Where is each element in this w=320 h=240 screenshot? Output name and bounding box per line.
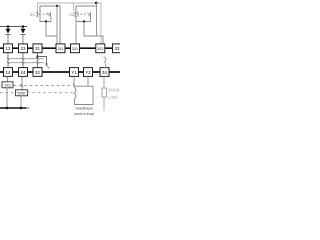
sensor box 1X1 bbox=[2, 82, 13, 88]
box 14 bbox=[4, 68, 13, 77]
svg-text:24Vdc: 24Vdc bbox=[108, 88, 120, 93]
wire row1-row2 connector x8 bbox=[7, 53, 9, 68]
box 321 bbox=[71, 44, 80, 53]
sensor box 1X2 bbox=[16, 90, 28, 96]
node S1 rail bbox=[56, 5, 58, 7]
wire S2 drain drop bbox=[96, 3, 98, 36]
node on gate line bbox=[95, 2, 97, 4]
wire row1-row2 connector x23 bbox=[22, 53, 24, 68]
load resistor bbox=[102, 88, 106, 97]
svg-text:Y2: Y2 bbox=[85, 70, 91, 75]
bus row 2 bbox=[0, 71, 120, 73]
box 33 edge bbox=[113, 44, 122, 53]
svg-text:14: 14 bbox=[6, 70, 11, 75]
node S2 emitter bbox=[83, 20, 85, 22]
svg-text:control loop: control loop bbox=[74, 111, 94, 116]
box 322 bbox=[96, 44, 105, 53]
svg-text:24: 24 bbox=[21, 70, 26, 75]
svg-text:32: 32 bbox=[35, 70, 40, 75]
tick diagonal bbox=[47, 65, 50, 69]
transistor S1 bbox=[36, 12, 51, 18]
wire S2 left drop to box E bbox=[75, 22, 77, 45]
box 23 bbox=[19, 44, 28, 53]
transistor S2 bbox=[74, 12, 91, 18]
wire S2 emitter bottom bbox=[76, 16, 91, 22]
wire S1 rail drop bbox=[56, 6, 58, 44]
node input 2 bbox=[22, 25, 25, 28]
svg-text:322: 322 bbox=[97, 47, 103, 51]
diode D1 bbox=[6, 27, 11, 45]
hop ticks bbox=[7, 58, 39, 65]
svg-text:S2: S2 bbox=[69, 12, 75, 17]
wire load down bbox=[103, 97, 105, 111]
node input 1 bbox=[7, 25, 10, 28]
wire box34 down to load bbox=[103, 76, 105, 88]
box 34 bbox=[100, 68, 109, 77]
wire Y2 down bbox=[87, 76, 89, 86]
wire box14 down bbox=[7, 76, 9, 82]
wire sensor1 down bbox=[6, 88, 8, 108]
node tap below box 31 bbox=[36, 55, 38, 57]
dashed line 1 bbox=[14, 85, 74, 87]
box 24 bbox=[19, 68, 28, 77]
box 311 bbox=[56, 44, 65, 53]
gate drive line (light) top bbox=[38, 3, 102, 44]
signal line B bbox=[8, 62, 44, 64]
wire row1-row2 connector x37.5 bbox=[37, 53, 39, 68]
bottom bus bbox=[0, 107, 26, 109]
svg-text:Y1: Y1 bbox=[71, 70, 77, 75]
box 31 bbox=[33, 44, 42, 53]
wire S2 collector rail bbox=[76, 6, 97, 13]
signal line A bbox=[8, 58, 44, 60]
hop tick bbox=[21, 84, 23, 87]
svg-text:S1: S1 bbox=[30, 12, 36, 17]
wire sensor2 down bbox=[20, 96, 22, 108]
svg-text:33: 33 bbox=[115, 46, 120, 51]
svg-text:23: 23 bbox=[21, 46, 26, 51]
svg-text:Load :: Load : bbox=[108, 95, 120, 100]
node bottom 1 bbox=[6, 107, 9, 110]
node bottom 2 bbox=[20, 107, 23, 110]
box 32 bbox=[33, 68, 42, 77]
svg-text:Feedback: Feedback bbox=[75, 106, 92, 111]
wire S1 emitter bottom bbox=[40, 16, 51, 22]
box Y2 bbox=[84, 68, 93, 77]
wire S1 emitter to box D bbox=[46, 22, 57, 37]
diode D2 bbox=[21, 27, 26, 45]
box Y1 bbox=[70, 68, 79, 77]
svg-text:321: 321 bbox=[72, 47, 78, 51]
arrowhead tap bbox=[45, 64, 47, 67]
svg-text:34: 34 bbox=[102, 70, 107, 75]
wire S1 collector rail bbox=[40, 6, 60, 44]
dashed line 2 bbox=[0, 92, 74, 94]
svg-text:13: 13 bbox=[6, 46, 11, 51]
wire tap L bbox=[38, 57, 47, 65]
box 13 bbox=[4, 44, 13, 53]
wire Y1 down bbox=[73, 76, 75, 85]
squiggle feedback arrow bbox=[104, 57, 107, 69]
input rail top-left bbox=[0, 26, 27, 28]
node S1 emitter bbox=[45, 20, 47, 22]
feedback loop box bbox=[75, 86, 94, 104]
wire gate drop S2 bbox=[73, 3, 75, 11]
wire box24 down bbox=[21, 76, 23, 90]
node S2 rail bbox=[95, 2, 97, 4]
svg-text:311: 311 bbox=[58, 47, 64, 51]
wire S2 emitter to box F bbox=[84, 22, 103, 45]
svg-text:1X1: 1X1 bbox=[4, 83, 12, 88]
svg-text:31: 31 bbox=[35, 46, 40, 51]
bus row 1 bbox=[0, 47, 120, 49]
